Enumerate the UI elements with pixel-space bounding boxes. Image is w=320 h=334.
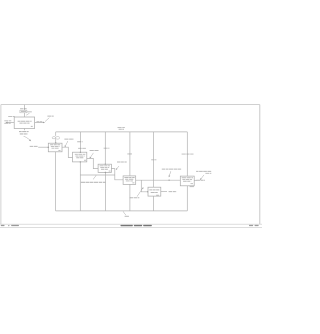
B2 inner text line3: [76, 157, 84, 159]
wire: branch down to B5 left: [141, 180, 148, 192]
wire: block U6 bottom to ground rail: [186, 186, 188, 211]
block U6 (power manager): [180, 176, 194, 186]
leader: TCXO caption up to wire: [93, 175, 96, 179]
annotation A2 text line1: [4, 120, 11, 122]
U6 inner text line2: [182, 179, 192, 181]
net label on B4 top wire: [127, 153, 132, 155]
sheet frame left edge: [0, 105, 2, 225]
block B1 (front end): [48, 143, 62, 152]
B5 stub net label: [169, 191, 177, 193]
annotation A2 text line2: [4, 122, 10, 124]
net label on U6 top wire: [182, 153, 194, 155]
block U1 (controller): [14, 117, 34, 129]
footer bottom rule: [0, 226, 262, 228]
label on U1 output wire: [37, 121, 43, 123]
small label under U6: [190, 186, 194, 188]
wire: U1 bottom stub: [23, 129, 25, 131]
LDO caption text: [130, 197, 140, 199]
B5 inner text line2: [151, 192, 158, 194]
regulator annotation text: [117, 161, 127, 163]
net label on B2 top wire: [77, 141, 82, 143]
net label 2 on B2 top wire: [78, 147, 86, 149]
junction dot at B3 top: [105, 164, 106, 165]
junction dot under leader on output wire: [168, 180, 169, 181]
U1 inner text line2: [20, 122, 30, 124]
leader: LDO caption up to branch corner: [137, 188, 143, 197]
label N1 line above box: [20, 108, 27, 110]
U6 stub net label: [196, 179, 205, 181]
leader: annotation above U6 down to wire: [169, 171, 171, 176]
label N1 text in box: [21, 110, 26, 112]
wire: rail tap down to B5 top: [153, 132, 155, 187]
arrowhead: U1 input (points left): [5, 122, 7, 124]
wire: B3 right to B4 left (Z bend): [111, 169, 123, 180]
right annotation line1: [196, 170, 211, 172]
footer right text: [249, 225, 253, 226]
wire: B5 bottom down to ground rail: [153, 196, 155, 211]
long annotation above U6: [162, 168, 182, 170]
U1 corner mark: [31, 125, 33, 127]
B2 inner text line1: [75, 153, 86, 155]
annotation A2 text above: [8, 115, 14, 117]
wire: B2 bottom down to ground rail: [79, 162, 81, 211]
wire: B5 right stub: [161, 191, 167, 193]
B2 inner text line2: [76, 155, 85, 157]
net label above rail: [118, 127, 126, 129]
junction dot at B5 left: [147, 191, 148, 192]
crystal annotation text: [64, 138, 73, 140]
wire: U1 input arrow (left): [7, 121, 15, 123]
B1 corner mark: [58, 150, 60, 152]
wire: inner VDD rail top: [56, 131, 188, 133]
net label on B5 top wire: [151, 159, 156, 161]
U6 corner mark: [191, 183, 194, 185]
block B3 (regulator): [98, 164, 111, 172]
junction dot at Y1-B1: [55, 142, 57, 144]
caption below U1 line2: [20, 133, 28, 135]
GND label: [125, 215, 129, 217]
B3 corner mark: [109, 170, 111, 172]
wire: rail tap down to B2 top: [79, 132, 81, 152]
wire: right loop x=187 down to block U6: [186, 132, 188, 176]
arrowhead: U1 output (points right): [43, 122, 45, 124]
net label on B3 top wire: [104, 147, 110, 149]
leader: GND label to ground rail: [123, 211, 126, 215]
wire: rail tap down to B4 top: [129, 132, 131, 176]
B3 inner text line2: [100, 167, 109, 169]
B4 corner mark: [132, 182, 134, 184]
junction dot at B2 bottom: [80, 161, 82, 163]
leader: annotation to B3-B4 corner: [116, 166, 119, 169]
B4 inner text line1: [124, 177, 134, 179]
B5 corner mark: [156, 194, 159, 196]
block B2 (TCXO): [73, 152, 87, 162]
annotation text right of B2: [90, 150, 99, 152]
wire: ground rail bottom: [56, 210, 188, 212]
footer top rule: [0, 223, 262, 225]
B3 inner text line3: [101, 168, 108, 170]
wire: horizontal link at y=175: [80, 174, 115, 176]
wire: B3 bottom down to ground rail: [104, 172, 106, 211]
wire: crystal Y1 to block B1: [55, 139, 57, 143]
net label N1 box above U1: [20, 110, 27, 113]
right annotation line2: [205, 172, 211, 174]
junction dot at B1 left input: [48, 146, 50, 148]
antenna stub label: [30, 145, 38, 147]
B5 inner text line1: [149, 189, 159, 191]
wire: left loop down to crystal Y1: [55, 132, 57, 136]
wire: tap from top rail down to block U1: [23, 105, 25, 117]
label right of N1: [27, 111, 32, 113]
junction dot at B3 bottom: [105, 172, 107, 174]
TCXO caption text: [81, 181, 106, 183]
B1 inner text line3: [52, 147, 59, 149]
B4 inner text line3: [126, 180, 133, 182]
wire: rail tap down to B3 top: [104, 132, 106, 164]
B2 corner mark: [84, 159, 86, 161]
sheet frame right edge: [259, 105, 261, 225]
leader: crystal annotation: [65, 141, 68, 146]
crystal Y1 (twin ellipse symbol): [52, 137, 60, 139]
wire: U6 right stub: [194, 179, 196, 181]
text smudges: [4, 109, 211, 217]
wire: block B1 bottom down to ground rail: [55, 152, 57, 211]
block B4 (LDO): [123, 176, 136, 185]
B1 inner text line1: [50, 144, 60, 146]
B4 inner text line2: [125, 178, 134, 180]
U6 inner text line1: [182, 177, 193, 179]
leader: right annotation to U6 stub: [201, 175, 204, 179]
junction dot at B2 top: [80, 151, 82, 153]
B1 inner text line2: [51, 145, 60, 147]
wire: antenna stub into B1 left: [38, 146, 48, 148]
block B5 (computer): [148, 187, 161, 196]
leader: annotation A1 to output arrow: [45, 118, 49, 122]
wire: B4 output across to U6 left: [136, 179, 181, 181]
B3 inner text line1: [100, 165, 110, 167]
leader: annotation to B2: [90, 153, 93, 158]
U1 inner text line1: [18, 120, 32, 122]
annotation A1 text: [47, 115, 53, 117]
footer left text: [1, 225, 5, 226]
footer center text: [121, 225, 133, 226]
leader: label to U1 top wire: [26, 113, 29, 115]
caption below U1 line1: [19, 131, 29, 133]
leader: curved arrow below U1: [24, 136, 31, 140]
sheet frame top edge: [1, 104, 260, 106]
wire: U1 output arrow (right): [35, 121, 44, 123]
wire: B4 bottom down to ground rail: [129, 184, 131, 211]
U6 inner text line3: [183, 180, 191, 182]
wire: B2 right to B3 left (Z bend): [87, 158, 98, 168]
wire: B1 right to B2 left (Z bend): [62, 147, 73, 157]
